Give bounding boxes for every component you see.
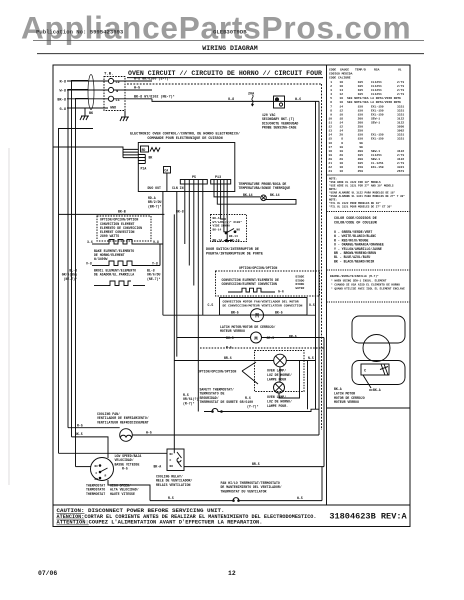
lamps dashed box	[255, 351, 305, 392]
P13 pin wire 2	[217, 184, 296, 204]
svg-text:EXL-150: EXL-150	[371, 134, 384, 137]
svg-text:12: 12	[228, 570, 236, 577]
svg-text:AppliancePartsPros.com: AppliancePartsPros.com	[21, 10, 411, 46]
svg-text:GLEB30T9DB: GLEB30T9DB	[213, 29, 247, 36]
svg-text:DIODO: DIODO	[296, 279, 305, 282]
svg-text:3321: 3321	[397, 134, 404, 137]
svg-text:THERMOSTAT: THERMOSTAT	[86, 492, 105, 496]
svg-text:12: 12	[339, 93, 343, 96]
svg-text:200: 200	[358, 150, 364, 153]
svg-text:BK: BK	[89, 112, 94, 116]
svg-text:PROBE SENSING-CASE: PROBE SENSING-CASE	[262, 126, 297, 130]
mid vertical wire a	[162, 192, 164, 316]
svg-text:5: 5	[330, 97, 332, 100]
svg-text:OPTION/OPCION/OPTION: OPTION/OPCION/OPTION	[239, 266, 277, 270]
table bottom rule	[327, 174, 411, 176]
latch motor rotor	[363, 335, 390, 362]
svg-text:BK-8 GY/8102 (NE-7)*: BK-8 GY/8102 (NE-7)*	[134, 94, 175, 99]
svg-text:150: 150	[358, 166, 364, 169]
svg-text:MOTEUR VERROU: MOTEUR VERROU	[334, 400, 359, 404]
svg-text:M: M	[255, 313, 259, 320]
color code heading	[334, 216, 378, 226]
svg-text:C-5: C-5	[208, 303, 214, 307]
svg-text:BK-A: BK-A	[154, 465, 162, 469]
svg-text:WATER: WATER	[296, 287, 305, 290]
svg-text:LAMPE FOUR: LAMPE FOUR	[267, 377, 286, 381]
svg-text:MOTEUR VERROU: MOTEUR VERROU	[220, 329, 245, 333]
svg-text:P1A: P1A	[141, 167, 147, 171]
wire from border to EOC	[53, 147, 123, 149]
CA connector box	[164, 167, 171, 174]
svg-text:BK: BK	[149, 156, 153, 160]
latch motor housing lower	[352, 361, 405, 385]
svg-text:ATTENTION:COUPEZ L'ALIMENTATIO: ATTENTION:COUPEZ L'ALIMENTATION AVANT D'…	[57, 520, 263, 526]
svg-text:18: 18	[339, 162, 343, 165]
op-amp EOC box	[138, 143, 235, 192]
color code list	[334, 230, 384, 263]
svg-text:R-8: R-8	[60, 80, 66, 84]
wire conv motor row	[163, 314, 251, 316]
P5 pin wire 3	[193, 184, 195, 286]
leader to BK-A	[363, 375, 371, 388]
svg-text:4: 4	[330, 93, 332, 96]
wire latch row	[177, 337, 251, 339]
P5 pin wire 5	[202, 184, 204, 315]
svg-text:20: 20	[328, 158, 332, 161]
svg-text:R-6: R-6	[245, 396, 251, 400]
supply wire R	[67, 80, 108, 82]
svg-text:CL1251: CL1251	[371, 85, 382, 88]
svg-text:14: 14	[339, 105, 343, 108]
svg-text:BK-8: BK-8	[57, 98, 66, 102]
P13 pin wire 1	[214, 184, 260, 197]
svg-text:105: 105	[358, 85, 364, 88]
P5 connector strip	[180, 180, 207, 185]
svg-text:12: 12	[339, 109, 343, 112]
svg-text:14: 14	[339, 89, 343, 92]
svg-text:10: 10	[339, 113, 343, 116]
wire conv element	[92, 243, 106, 245]
svg-text:(NE-7)*: (NE-7)*	[147, 277, 160, 281]
svg-text:7: 7	[330, 105, 332, 108]
svg-text:16: 16	[328, 142, 332, 145]
svg-text:3321: 3321	[397, 105, 404, 108]
svg-text:13: 13	[328, 130, 332, 133]
wire L2 to EOC label R-8 GR/6100	[114, 80, 152, 82]
svg-text:R-5: R-5	[168, 496, 174, 500]
svg-text:PUERTA/INTERRUPTEUR DE PORTE: PUERTA/INTERRUPTEUR DE PORTE	[206, 252, 263, 257]
svg-text:NC: NC	[95, 465, 99, 468]
left vertical wire 3	[72, 81, 89, 437]
svg-text:N: N	[116, 90, 118, 94]
svg-text:2/73: 2/73	[397, 80, 404, 84]
svg-text:WT/LAMA(S)* 6100*: WT/LAMA(S)* 6100*	[213, 220, 243, 224]
svg-text:COLOR CODE/CODIGOS DE: COLOR CODE/CODIGOS DE	[334, 216, 377, 221]
svg-text:BK-14: BK-14	[270, 193, 280, 197]
svg-text:18: 18	[339, 101, 343, 104]
svg-text:19: 19	[328, 154, 332, 157]
fan hilo thermostat symbol	[231, 498, 241, 501]
P13 connector strip	[211, 180, 231, 185]
svg-text:CONVECCION/ELEMENT CONVECTION: CONVECCION/ELEMENT CONVECTION	[222, 282, 278, 286]
svg-text:OPTION/OPCION/OPTION: OPTION/OPCION/OPTION	[100, 218, 138, 222]
svg-text:R-5: R-5	[77, 423, 83, 427]
svg-text:15: 15	[328, 138, 332, 141]
svg-text:18: 18	[339, 97, 343, 100]
caution text	[57, 508, 317, 526]
dashed separator latch	[200, 347, 324, 349]
svg-text:W/3400W: W/3400W	[94, 257, 107, 261]
svg-text:2673: 2673	[397, 170, 404, 173]
svg-text:CL1251: CL1251	[371, 154, 382, 157]
svg-text:EXL-150: EXL-150	[371, 105, 384, 108]
svg-text:RELAIS VENTILATION: RELAIS VENTILATION	[156, 483, 191, 487]
svg-text:2: 2	[330, 85, 332, 88]
svg-text:2/73: 2/73	[397, 92, 404, 96]
svg-text:3122: 3122	[397, 117, 404, 120]
svg-text:SEE NOTE/VEA LA NOTA/VOIR NOTE: SEE NOTE/VEA LA NOTA/VOIR NOTE	[347, 96, 401, 100]
svg-text:R: R	[105, 475, 107, 478]
motor conv fan	[251, 309, 264, 322]
svg-text:SE: SE	[359, 142, 363, 145]
wire broil element	[94, 285, 108, 287]
svg-text:14: 14	[339, 130, 343, 133]
svg-text:C: C	[170, 459, 172, 462]
svg-text:BR-5: BR-5	[231, 311, 239, 315]
svg-text:BK-5: BK-5	[275, 311, 283, 315]
svg-text:16: 16	[339, 170, 343, 173]
transformer box	[274, 96, 285, 108]
diagram outer frame	[53, 65, 410, 527]
svg-text:CODE CALIBRE: CODE CALIBRE	[329, 77, 351, 80]
svg-text:3321: 3321	[397, 138, 404, 141]
svg-text:3122: 3122	[397, 158, 404, 161]
svg-text:L2: L2	[116, 81, 120, 85]
latch cam inner	[361, 364, 389, 375]
left pin comb	[138, 155, 145, 164]
svg-text:G-8: G-8	[228, 98, 234, 102]
terminal L1	[108, 96, 113, 101]
svg-text:105: 105	[358, 81, 364, 84]
svg-text:CL1251: CL1251	[371, 89, 382, 92]
latch motor housing upper	[352, 316, 405, 343]
svg-text:150: 150	[358, 109, 364, 112]
svg-text:R-8 GR/6100 (8-7)*: R-8 GR/6100 (8-7)*	[134, 77, 171, 82]
supply wire BK	[67, 98, 108, 100]
svg-text:BR-6: BR-6	[224, 356, 232, 360]
svg-text:3321: 3321	[397, 109, 404, 112]
svg-text:W-5: W-5	[297, 496, 303, 500]
svg-text:150: 150	[358, 113, 364, 116]
svg-text:G-6: G-6	[278, 290, 284, 294]
svg-text:20: 20	[339, 154, 343, 157]
svg-text:3122: 3122	[397, 150, 404, 153]
svg-text:11: 11	[328, 122, 332, 125]
color code separator	[327, 211, 411, 213]
svg-text:W-6: W-6	[295, 98, 301, 102]
wire gnd drop	[124, 111, 126, 118]
svg-text:6: 6	[330, 101, 332, 104]
svg-text:150: 150	[358, 105, 364, 108]
svg-text:NO: NO	[237, 229, 241, 232]
P5 pin wire 1	[184, 184, 186, 244]
supply wire W	[67, 89, 108, 91]
svg-text:SEW-1: SEW-1	[371, 150, 380, 153]
svg-text:W-5: W-5	[146, 431, 152, 435]
svg-text:18: 18	[339, 166, 343, 169]
speed switch body	[91, 458, 114, 481]
header rule lower	[37, 53, 424, 55]
svg-text:BK-14: BK-14	[243, 193, 253, 197]
svg-text:O-5: O-5	[309, 303, 315, 307]
svg-text:10: 10	[339, 146, 343, 149]
svg-text:17: 17	[328, 146, 332, 149]
svg-text:2/73: 2/73	[397, 153, 404, 157]
svg-text:LAMPE FOUR.: LAMPE FOUR.	[267, 404, 288, 408]
svg-text:UL: UL	[398, 69, 402, 72]
svg-text:DE ASADOR/EL.PARRILLA: DE ASADOR/EL.PARRILLA	[94, 273, 134, 277]
svg-text:L1: L1	[116, 99, 120, 103]
svg-text:DIODE: DIODE	[296, 276, 305, 279]
svg-text:CODE: CODE	[329, 69, 336, 72]
svg-text:14: 14	[328, 134, 332, 137]
svg-text:20: 20	[339, 134, 343, 137]
svg-text:BK-A: BK-A	[334, 387, 342, 391]
notes block	[329, 178, 405, 209]
wire L1 run to right G-8	[152, 99, 319, 102]
svg-text:07/06: 07/06	[38, 570, 57, 577]
svg-text:(R-7)*: (R-7)*	[183, 401, 195, 405]
svg-text:* QUAND UTILISE AVEC ISOL EL E: * QUAND UTILISE AVEC ISOL EL ELEMENT ENC…	[331, 287, 405, 291]
svg-text:(NE-7)*: (NE-7)*	[64, 277, 77, 281]
svg-text:* CUANDO SE USA AISO EL ELEMEN: * CUANDO SE USA AISO EL ELEMENTO DE HORN…	[331, 283, 400, 287]
svg-text:3321: 3321	[397, 113, 404, 116]
svg-text:105: 105	[358, 162, 364, 165]
mid vertical wire c	[176, 192, 178, 357]
svg-text:CODIGO MEDIDA: CODIGO MEDIDA	[329, 73, 353, 76]
svg-text:WIRING DIAGRAM: WIRING DIAGRAM	[202, 45, 257, 52]
terminal block dashed box	[104, 77, 125, 111]
svg-text:R-5: R-5	[226, 346, 232, 350]
wire to fan	[68, 427, 120, 429]
svg-text:CLN IN: CLN IN	[172, 186, 184, 190]
svg-text:31804623B REV:A: 31804623B REV:A	[329, 512, 407, 522]
svg-text:3050: 3050	[397, 126, 404, 129]
svg-text:LUZ DE HORNO/: LUZ DE HORNO/	[267, 399, 292, 403]
svg-text:THERMOSTAT DE SURETE GR/6100: THERMOSTAT DE SURETE GR/6100	[200, 400, 254, 404]
wire speed switch feed	[59, 452, 168, 454]
heating element R conv2	[228, 288, 275, 292]
sawtooth symbol	[150, 148, 160, 152]
wire into switch	[76, 466, 91, 468]
svg-text:8: 8	[330, 109, 332, 112]
svg-text:22: 22	[328, 166, 332, 169]
svg-text:18: 18	[339, 117, 343, 120]
svg-text:BK-B: BK-B	[118, 210, 126, 214]
inner corner wire left	[59, 129, 94, 454]
svg-text:2/73: 2/73	[397, 161, 404, 165]
wire lamp2	[279, 367, 281, 382]
svg-text:18: 18	[339, 81, 343, 84]
svg-text:10: 10	[339, 150, 343, 153]
svg-text:105: 105	[358, 89, 364, 92]
svg-text:14: 14	[339, 122, 343, 125]
svg-text:BK-14: BK-14	[213, 239, 223, 243]
svg-text:EXL-150: EXL-150	[371, 109, 384, 112]
svg-text:DUO OUT: DUO OUT	[148, 186, 161, 190]
svg-text:150: 150	[358, 138, 364, 141]
safety thermostat symbol	[204, 409, 226, 412]
harness loop	[88, 75, 94, 110]
right verticals	[315, 101, 317, 409]
svg-text:T.B.: T.B.	[104, 72, 114, 76]
svg-text:GAUGE: GAUGE	[340, 69, 349, 72]
dashed vertical right	[321, 84, 323, 430]
svg-text:COMMANDE POUR ELECTRONIQUE DE: COMMANDE POUR ELECTRONIQUE DE CUISSON	[147, 137, 222, 141]
svg-text:BK-A: BK-A	[213, 217, 220, 220]
svg-text:BK-A: BK-A	[373, 388, 381, 392]
svg-text:Publication No: 5995423693: Publication No: 5995423693	[36, 29, 124, 36]
svg-text:SE: SE	[359, 146, 363, 149]
svg-text:CL1251: CL1251	[371, 81, 382, 84]
svg-text:* WHEN USING SEW-1 INSUL. ELEM: * WHEN USING SEW-1 INSUL. ELEMENT	[331, 279, 387, 283]
svg-text:*FIL UL 3321 POUR MODELES DE 2: *FIL UL 3321 POUR MODELES DE 27" ET 30"	[329, 205, 392, 209]
svg-text:EXL-150: EXL-150	[371, 138, 384, 141]
door switch dashed box	[211, 215, 247, 242]
svg-text:DIODE: DIODE	[296, 283, 305, 286]
svg-text:BK-14: BK-14	[213, 228, 222, 231]
svg-text:M: M	[254, 336, 257, 342]
svg-text:18: 18	[339, 85, 343, 88]
svg-text:2/73: 2/73	[397, 84, 404, 88]
svg-text:3321: 3321	[397, 166, 404, 169]
svg-text:*USAR ALAMBRE UL 3122 PARA MOD: *USAR ALAMBRE UL 3122 PARA MODELOS DE 18…	[329, 191, 396, 195]
dashed secondary wire	[127, 83, 322, 85]
wire left bottom risers	[108, 480, 150, 501]
svg-text:250: 250	[358, 170, 364, 173]
svg-text:3: 3	[330, 89, 332, 92]
svg-text:TEMP/D: TEMP/D	[355, 68, 366, 72]
svg-text:TEMPERATURA/SONDE THERMIQUE: TEMPERATURA/SONDE THERMIQUE	[239, 186, 291, 190]
svg-text:N-5: N-5	[308, 356, 314, 360]
svg-text:OVEN LAMP/: OVEN LAMP/	[267, 368, 286, 372]
wire L1 label BK-8 GY/8102	[114, 98, 152, 100]
vertical wire from CA down	[166, 173, 168, 192]
svg-text:1: 1	[330, 81, 332, 84]
relay coil box	[167, 449, 184, 471]
svg-text:W-5: W-5	[134, 87, 140, 91]
svg-text:DOOR SWITCH/INTERRUPTOR DE: DOOR SWITCH/INTERRUPTOR DE	[206, 247, 259, 252]
svg-text:Y-8: Y-8	[152, 261, 158, 265]
title underline	[127, 77, 323, 79]
convection motor box	[220, 298, 308, 316]
P13 pin wire 5	[227, 184, 232, 241]
ground symbol left	[80, 108, 89, 120]
svg-text:OVEN LAMP/: OVEN LAMP/	[267, 395, 286, 399]
wire relay row BR-5	[184, 466, 324, 468]
svg-text:2/73: 2/73	[397, 88, 404, 92]
svg-text:SEE NOTE/VEA LA NOTA/VOIR NOTE: SEE NOTE/VEA LA NOTA/VOIR NOTE	[347, 100, 401, 104]
P13 pin wire 3	[221, 184, 226, 219]
bottom wire row right	[241, 500, 322, 502]
wire fan to right	[132, 434, 319, 436]
left vertical wire 4	[76, 99, 89, 467]
svg-text:3122: 3122	[397, 122, 404, 125]
scan artifact line	[8, 148, 10, 485]
svg-text:CA: CA	[164, 169, 168, 173]
wire fan lower	[72, 437, 109, 458]
svg-text:VENTILATEUR REFROIDISSEMENT: VENTILATEUR REFROIDISSEMENT	[97, 420, 149, 424]
svg-text:9: 9	[330, 113, 332, 116]
ground symbol right	[120, 111, 129, 122]
svg-text:EXL-150: EXL-150	[371, 113, 384, 116]
right column divider	[326, 65, 328, 505]
svg-text:BR-5: BR-5	[252, 462, 260, 466]
mid vertical wire b	[173, 214, 175, 453]
heating element R conv	[106, 240, 137, 245]
terminal N	[108, 87, 113, 92]
lamp oven 1	[274, 354, 287, 367]
svg-text:2800 WATTS: 2800 WATTS	[100, 234, 119, 238]
svg-text:250: 250	[358, 130, 364, 133]
svg-text:W-8: W-8	[60, 89, 66, 93]
svg-text:200: 200	[358, 158, 364, 161]
enamel separator	[327, 269, 411, 271]
enamel block	[330, 274, 405, 291]
svg-text:RD: RD	[142, 148, 146, 152]
temperature probe bulb	[261, 195, 267, 201]
convection element option dashed box	[97, 216, 151, 241]
svg-text:SEW-1: SEW-1	[371, 122, 380, 125]
lamp oven 2	[274, 382, 285, 393]
svg-text:9-8: 9-8	[153, 240, 159, 244]
svg-text:GND: GND	[110, 107, 116, 111]
svg-text:CL1251: CL1251	[371, 93, 382, 96]
motor cooling fan	[120, 429, 133, 442]
svg-text:*USE WIRE UL 3321 FOR 27" AND: *USE WIRE UL 3321 FOR 27" AND 30" MODELS	[329, 184, 394, 188]
supply wire G	[67, 107, 108, 109]
P5 pin wire 4	[197, 184, 199, 412]
svg-text:ENAMEL/ESMALTE/EMAILLE (M-7)*: ENAMEL/ESMALTE/EMAILLE (M-7)*	[330, 274, 379, 278]
svg-text:*USAR ALAMBRE UL 3321 PARA MOD: *USAR ALAMBRE UL 3321 PARA MODELOS DE 27…	[329, 194, 405, 198]
convection option dashed box	[216, 271, 320, 296]
svg-text:12: 12	[339, 126, 343, 129]
left vertical wire 2	[68, 90, 88, 428]
svg-text:LUZ DE HORNE/: LUZ DE HORNE/	[267, 373, 292, 377]
svg-text:10: 10	[328, 117, 332, 120]
svg-text:8: 8	[341, 142, 343, 145]
svg-text:12: 12	[328, 126, 332, 129]
svg-text:23: 23	[328, 170, 332, 173]
svg-text:20: 20	[339, 158, 343, 161]
svg-text:NC: NC	[170, 453, 174, 456]
svg-text:OVEN CIRCUIT // CIRCUITO DE HO: OVEN CIRCUIT // CIRCUITO DE HORNO // CIR…	[128, 70, 322, 77]
svg-text:ELECTRONIC OVEN CONTROL//CONTR: ELECTRONIC OVEN CONTROL//CONTROL DE HORN…	[130, 132, 240, 137]
svg-text:HAUTE VITESSE: HAUTE VITESSE	[110, 492, 135, 496]
svg-text:G-8: G-8	[60, 108, 66, 112]
svg-text:BK - BLACK/NEGRO/NOIR: BK - BLACK/NEGRO/NOIR	[334, 259, 374, 263]
svg-text:*USE WIRE UL 3122 FOR 18" MODE: *USE WIRE UL 3122 FOR 18" MODELS	[329, 180, 381, 184]
svg-text:20A: 20A	[248, 93, 255, 97]
svg-text:150: 150	[358, 134, 364, 137]
svg-text:NO: NO	[170, 465, 174, 468]
svg-text:(Y-7)*: (Y-7)*	[247, 404, 259, 408]
wires into EOC left	[123, 149, 138, 157]
svg-text:V-8: V-8	[86, 261, 92, 265]
terminal L2	[108, 78, 113, 83]
svg-text:3062: 3062	[397, 130, 404, 133]
svg-text:SEW-1: SEW-1	[371, 158, 380, 161]
